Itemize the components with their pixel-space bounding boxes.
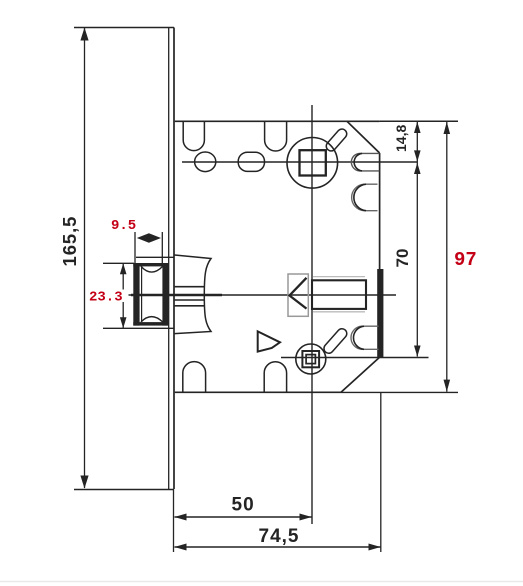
dim 50 line (175, 516, 312, 518)
dim 23.3 extension bottom / latch collar bottom (103, 327, 174, 329)
svg-text:97: 97 (454, 249, 477, 271)
lower follower outer circle (296, 344, 326, 374)
oval slot (238, 152, 264, 171)
deadbolt shadow bottom (313, 311, 365, 313)
dim 9.5 ext right (161, 232, 163, 263)
arrow 9.5 rhombus (137, 233, 161, 242)
arrow 14,8 up (414, 122, 421, 133)
spindle square hole (300, 150, 326, 175)
latch bottom bevel arc (141, 317, 163, 322)
arrow 50 left (174, 514, 186, 521)
latch collar top line (136, 256, 174, 258)
extension line body right down to bottom dims (380, 392, 382, 552)
dim 23.3 extension top (103, 262, 134, 264)
extension line body bottom right (341, 391, 458, 393)
svg-text:9.5: 9.5 (111, 218, 136, 234)
latch guide bar (162, 263, 168, 326)
top slot 1 (183, 121, 204, 150)
bottom slot 2 (264, 362, 286, 392)
latch bottom border (133, 322, 168, 326)
latch inner edge (141, 266, 143, 322)
arrow 23.3 up (120, 263, 127, 274)
label 23.3 white backing (88, 290, 129, 303)
arrow 70 up (414, 163, 421, 174)
bottom slot 1 (183, 362, 206, 393)
svg-text:14,8: 14,8 (393, 125, 409, 152)
cam wedge (258, 331, 280, 351)
extension line faceplate top (74, 27, 174, 29)
arrow 97 up (444, 122, 451, 134)
latch top bevel arc (141, 266, 163, 272)
dim 165,5 line (84, 28, 86, 488)
svg-text:165,5: 165,5 (59, 216, 80, 267)
C slot lower right (351, 326, 379, 349)
arrow 74,5 left (174, 544, 186, 551)
deadbolt guide square gray (288, 274, 308, 316)
latch bolt face bar (133, 263, 139, 326)
arrow 14,8 down (414, 150, 421, 161)
top slot 2 (265, 121, 287, 151)
deadbolt chevron (290, 278, 307, 309)
latch tail (175, 255, 211, 334)
upper centerline (182, 161, 417, 163)
extension line left edge down to bottom dims (173, 489, 175, 552)
extension line body top right (380, 120, 458, 122)
arrowheads (80, 28, 450, 551)
lower follower inner square (306, 355, 315, 364)
dim 23.3 line (122, 263, 124, 328)
round hole (195, 152, 216, 172)
arrow 70 down (414, 346, 421, 357)
deadbolt shadow top (313, 276, 365, 278)
extension line faceplate bottom (74, 489, 174, 491)
dim 74,5 line (175, 546, 381, 548)
arrow 97 down (444, 380, 451, 392)
arrow 23.3 down (120, 317, 127, 328)
latch centerline (128, 294, 396, 296)
svg-text:74,5: 74,5 (259, 526, 300, 547)
latch tail lines (175, 286, 205, 288)
arrow 165,5 down (80, 476, 88, 489)
latch top border (133, 263, 168, 266)
svg-text:70: 70 (393, 249, 412, 268)
diagonal slot upper (324, 127, 348, 153)
faceplate (169, 28, 174, 490)
lower follower square (302, 351, 319, 367)
svg-text:23.3: 23.3 (89, 290, 123, 306)
arrow 165,5 up (80, 28, 88, 41)
deadbolt body (312, 280, 366, 309)
dim 14,8+70 line (416, 122, 418, 357)
spindle follower circle (287, 138, 338, 189)
follower centerline (281, 357, 429, 359)
faint page rule (0, 581, 523, 583)
dim 9.5 ext left (134, 232, 136, 263)
dim 97 line (446, 122, 448, 392)
side slot at centerline (351, 153, 379, 171)
body right edge thick bar (377, 269, 383, 357)
lock body outline (175, 121, 380, 392)
arrow 50 right (300, 514, 312, 521)
spindle vertical centerline (311, 105, 313, 524)
svg-text:50: 50 (232, 495, 255, 516)
arrow 74,5 right (369, 544, 381, 551)
C slot upper right (352, 184, 378, 211)
diagonal slot lower (322, 327, 349, 355)
